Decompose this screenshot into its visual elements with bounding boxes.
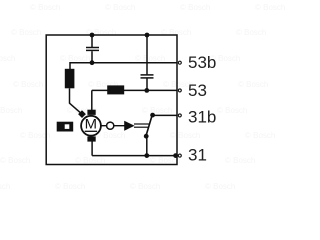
node: 31 wire junction [144, 153, 149, 158]
drive arrow head [124, 121, 134, 131]
capacitor C1 plates [86, 48, 99, 51]
wire terminal 31b line [153, 114, 177, 116]
motor top brush [87, 110, 95, 115]
wire down to choke L1 [69, 62, 71, 69]
wire terminal 53b line [70, 62, 177, 64]
permanent magnet symbol [57, 122, 73, 132]
capacitor C2 lead bottom [146, 79, 148, 91]
wire motor bottom down [91, 141, 93, 155]
svg-text:31b: 31b [188, 107, 216, 126]
choke L1 [65, 69, 75, 89]
svg-text:M: M [85, 117, 97, 132]
node: top rail junction left [90, 33, 95, 38]
park switch arm [146, 115, 152, 136]
watermark pattern [0, 0, 271, 1]
motor M underline [85, 130, 97, 132]
capacitor C1 lead bottom [91, 51, 93, 63]
svg-text:53b: 53b [188, 53, 216, 72]
wire 53 feed down to top brush [91, 90, 93, 110]
frame / housing boundary [46, 35, 177, 165]
cam follower circle [107, 122, 114, 129]
node: C1 to 53b wire [90, 60, 95, 65]
wire terminal 53 line [92, 89, 177, 91]
node: switch pivot [144, 134, 149, 139]
motor bottom brush [87, 136, 95, 141]
node: top rail junction right [145, 33, 150, 38]
capacitor C2 plates [141, 75, 154, 78]
motor M circle [81, 116, 101, 136]
svg-text:31: 31 [188, 145, 207, 164]
choke L2 [107, 85, 124, 94]
terminal 31b circle [178, 114, 181, 117]
svg-text:53: 53 [188, 81, 207, 100]
wire below choke L1 [69, 88, 71, 103]
wire switch to 31 line [146, 136, 148, 155]
capacitor C2 lead top [146, 35, 148, 74]
terminal 31 circle [178, 154, 181, 157]
node: switch top [150, 113, 155, 118]
wire motor to cam [101, 125, 107, 127]
wire diagonal to brush [70, 103, 82, 113]
node: C2 to 53 wire [144, 88, 149, 93]
linkage double line [134, 124, 149, 127]
wire terminal 31 line [92, 155, 177, 157]
node: 31 at frame [173, 153, 178, 158]
brush contact diamond [78, 110, 86, 118]
terminal 53b circle [178, 61, 181, 64]
drive shaft line [114, 125, 125, 127]
terminal 53 circle [178, 89, 181, 92]
capacitor C1 lead top [91, 35, 93, 47]
